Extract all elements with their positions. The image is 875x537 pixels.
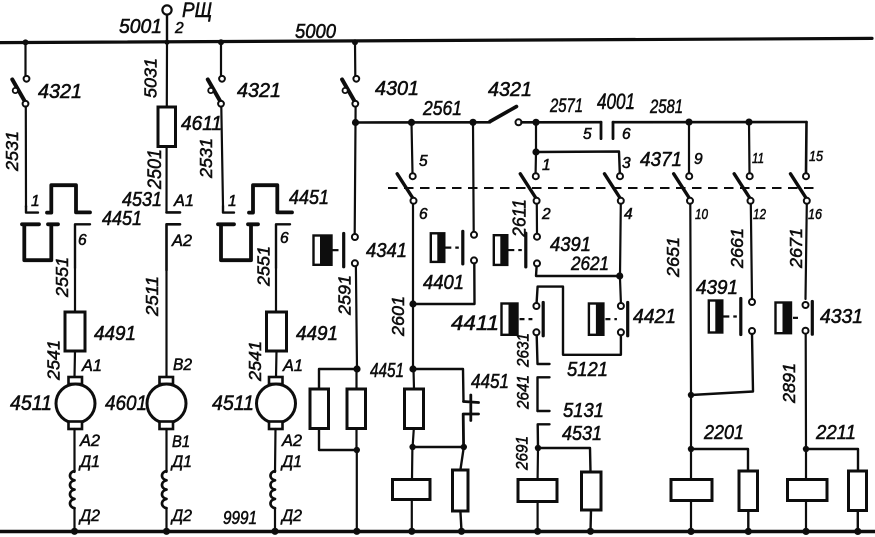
wire 2571 down to link 1-3: [535, 122, 537, 152]
switch contact 1-2: [520, 173, 539, 204]
svg-text:2561: 2561: [422, 98, 462, 120]
wire junction to relay coil 2211: [805, 449, 807, 479]
wire button 4391 return: [691, 334, 753, 395]
svg-text:Д1: Д1: [280, 453, 302, 471]
pushbutton 4391 (second): [709, 299, 755, 335]
node junction relay group 2201: [688, 446, 694, 452]
svg-text:2621: 2621: [570, 254, 609, 275]
wire 2541 to motor A1: [73, 351, 76, 377]
svg-text:4421: 4421: [633, 306, 676, 328]
resistor 4611: [158, 107, 176, 147]
svg-text:5131: 5131: [563, 400, 604, 422]
wire top supply bus 5000: [0, 38, 872, 42]
svg-text:2531: 2531: [2, 131, 22, 172]
wire 2511: [165, 270, 167, 377]
wire link to contact 1: [534, 152, 537, 173]
svg-text:4601: 4601: [105, 392, 147, 415]
svg-text:В2: В2: [173, 356, 192, 374]
pushbutton 4341: [314, 234, 358, 267]
svg-text:1: 1: [542, 157, 551, 174]
svg-text:Д2: Д2: [170, 507, 192, 525]
wire 2621: [536, 267, 620, 277]
svg-text:2211: 2211: [815, 422, 856, 444]
svg-text:2571: 2571: [549, 96, 583, 117]
wire 2581 to contact 9: [688, 122, 690, 173]
svg-text:Д1: Д1: [78, 453, 100, 471]
connector 4531 contact A1 (pin foot): [167, 211, 181, 214]
node junction link 1-3: [532, 148, 539, 155]
svg-text:3: 3: [622, 155, 631, 172]
wire 4321 to node 2571: [522, 121, 537, 124]
svg-text:2891: 2891: [779, 363, 799, 404]
wire junction left to resistor (brake group 1): [319, 369, 357, 389]
relay coil (brake group 2): [393, 480, 431, 500]
svg-text:5: 5: [583, 126, 592, 143]
relay coil 2211: [788, 480, 828, 501]
wire bus to switch 4321-2: [220, 42, 222, 75]
svg-text:Д2: Д2: [280, 507, 302, 525]
switch contact 9-10: [674, 173, 693, 204]
wire resistor 2201 to bus: [747, 511, 749, 532]
svg-text:15: 15: [809, 148, 824, 165]
svg-text:A1: A1: [173, 192, 194, 210]
node junction relay group 2211: [803, 446, 809, 452]
svg-text:4401: 4401: [423, 272, 464, 294]
svg-text:2631: 2631: [514, 333, 533, 368]
resistor 4491 (branch 1): [65, 312, 85, 351]
switch contact 3-4: [605, 173, 624, 204]
svg-text:2: 2: [174, 20, 184, 37]
svg-text:4511: 4511: [212, 392, 254, 415]
wire group 1 to bottom bus: [356, 450, 358, 531]
wire relay junction to tap junction: [413, 446, 464, 448]
resistor brake group 1 left: [310, 389, 329, 429]
svg-text:4491: 4491: [94, 323, 136, 345]
switch 4321 (line contact): [490, 107, 522, 126]
wire motor A2 to Д1 (branch 3): [274, 429, 277, 472]
wire bottom return bus: [0, 530, 875, 533]
svg-text:2671: 2671: [786, 228, 806, 269]
wire resistor left bottom: [319, 429, 356, 450]
wire 2891: [805, 334, 807, 449]
connector 4451 contact 6 (pin foot): [75, 224, 90, 268]
svg-text:2601: 2601: [388, 296, 408, 337]
connector 4451-2 contact 1 (pin foot): [223, 206, 234, 213]
wire link contacts 1-3: [536, 152, 620, 173]
switch contact 15-16: [791, 173, 810, 204]
svg-text:9991: 9991: [223, 508, 257, 528]
svg-text:4371: 4371: [640, 149, 682, 171]
wire tap junction to resistor: [460, 447, 463, 470]
wire switch 4301 to line 2561: [354, 107, 356, 123]
wire 2561 to contact 5: [412, 122, 413, 173]
relay coil 2201: [671, 480, 712, 501]
svg-text:2591: 2591: [335, 275, 355, 316]
svg-text:1: 1: [31, 193, 40, 210]
svg-text:4331: 4331: [820, 306, 863, 328]
svg-text:6: 6: [78, 232, 87, 249]
connector 4451 plug bridge (U): [22, 224, 58, 260]
svg-text:4531: 4531: [122, 189, 162, 211]
svg-text:A2: A2: [171, 232, 192, 250]
svg-text:1: 1: [228, 193, 237, 210]
wire 2671: [806, 204, 807, 299]
resistor discharge (2691 group): [582, 472, 602, 510]
node junction 2651 / 4391 return: [688, 392, 694, 398]
connector 5131 upper contact (foot): [538, 410, 550, 412]
wire motor A2 to field Д1: [73, 429, 75, 472]
svg-text:5001: 5001: [119, 16, 162, 38]
resistor brake group 1 right: [347, 389, 366, 429]
wire 2551 (branch 3): [275, 268, 277, 312]
svg-text:6: 6: [419, 206, 428, 223]
wire resistor 2211 to bus: [857, 511, 859, 532]
wire discharge resistor to bus: [460, 511, 461, 531]
wire 2531 (branch 1): [25, 107, 27, 208]
svg-text:A2: A2: [79, 432, 100, 450]
wire Д2 to bottom bus (branch 2): [165, 508, 167, 531]
connector 4451 tap upper contact: [464, 395, 479, 409]
connector 4451 socket bridge (inverted U): [47, 185, 90, 212]
node bottom bus junction (2201 coil): [687, 528, 694, 535]
svg-text:10: 10: [695, 206, 709, 223]
svg-text:4341: 4341: [366, 240, 407, 262]
svg-text:4301: 4301: [375, 78, 419, 100]
connector 4451-2 contact 6 (pin foot): [276, 224, 290, 268]
connector 4451-2 plug bridge (U): [218, 224, 258, 260]
node bottom bus junction (2691 coil): [534, 528, 541, 535]
node bottom bus junction discharge resistor: [458, 528, 465, 535]
resistor 4491 (branch 3): [267, 312, 287, 351]
svg-text:2641: 2641: [514, 375, 533, 410]
dashed control-panel boundary line: [388, 187, 818, 189]
wire 2591: [356, 266, 357, 369]
wire 2661: [751, 204, 752, 299]
wire relay coil 2201 to bus: [690, 501, 692, 532]
field winding Д1-Д2 (motor 1): [70, 471, 75, 508]
svg-text:4391: 4391: [550, 234, 591, 256]
svg-text:4451: 4451: [289, 187, 329, 209]
node bottom bus junction branch 2: [163, 528, 170, 535]
resistor group 2201: [739, 471, 758, 511]
wire Д2 to bottom bus (branch 3): [274, 508, 276, 531]
pushbutton 4401: [431, 231, 477, 264]
svg-text:4491: 4491: [296, 323, 338, 345]
svg-text:2511: 2511: [142, 276, 162, 317]
svg-text:4511: 4511: [10, 392, 52, 415]
wire relay coil 2211 to bus: [805, 501, 807, 532]
wire 5031: [166, 42, 168, 107]
wire 2551 (branch 1): [74, 268, 76, 312]
svg-text:5000: 5000: [295, 21, 336, 43]
node bottom bus junction (2201 resistor): [745, 528, 752, 535]
node bottom bus junction branch 1: [71, 528, 78, 535]
node junction 2691: [535, 445, 541, 451]
node bus junction branch 1: [23, 39, 29, 45]
node junction 2621 / contact 4: [616, 272, 623, 279]
switch 4321 (branch 1): [12, 76, 82, 107]
wire junction to relay coil: [411, 447, 414, 479]
svg-text:A1: A1: [81, 357, 102, 375]
svg-text:2531: 2531: [196, 138, 216, 179]
field winding Д1-Д2 (motor 2): [162, 471, 167, 508]
wire 2601 upper: [412, 204, 414, 304]
wire 2531 (branch 3): [221, 107, 223, 207]
node junction 2571: [532, 119, 539, 126]
wire junction to button 4341: [354, 123, 357, 234]
wire junction to button 4421: [620, 276, 621, 303]
svg-text:2581: 2581: [649, 97, 683, 118]
svg-text:2201: 2201: [703, 422, 744, 444]
node bottom bus junction branch 3: [271, 528, 278, 535]
node junction 2561 / button 4341 column: [408, 119, 415, 126]
wire button 4421 to button 4411 (loop): [537, 287, 621, 355]
svg-text:A1: A1: [282, 357, 303, 375]
wire button 4401 return: [413, 263, 475, 304]
svg-text:A2: A2: [281, 432, 302, 450]
svg-text:2541: 2541: [245, 341, 265, 382]
svg-text:6: 6: [280, 230, 289, 247]
node junction relay group 2: [409, 444, 415, 450]
wire relay coil to bottom bus: [411, 500, 413, 532]
svg-text:2691: 2691: [513, 436, 532, 471]
svg-text:4001: 4001: [597, 89, 635, 114]
wire line 2571: [536, 121, 601, 124]
pushbutton 4421: [589, 303, 628, 336]
node bottom bus junction relay 2: [408, 528, 415, 535]
relay coil (2691 group): [518, 480, 557, 502]
svg-text:4451: 4451: [370, 360, 404, 382]
svg-text:4451: 4451: [471, 371, 509, 393]
wire line 2581: [613, 121, 807, 124]
connector 5121 lower contact: [538, 377, 550, 411]
switch 4321 (branch 3): [208, 76, 281, 107]
wire discharge resistor to bus (2691): [589, 510, 592, 531]
wire junction to relay coil (2691): [536, 448, 539, 479]
svg-text:2651: 2651: [663, 237, 683, 278]
svg-text:4391: 4391: [696, 277, 738, 299]
wire line 2561: [356, 121, 491, 124]
svg-text:Д1: Д1: [170, 453, 192, 471]
wire 2611: [536, 204, 538, 234]
wire 2581 corner down to contact 15: [805, 122, 808, 173]
node junction 2561 left: [352, 119, 359, 126]
node bottom bus junction group 1: [353, 528, 360, 535]
connector 4001 contact 6 (hook): [612, 122, 615, 138]
motor 4511 (branch 1): [56, 377, 95, 429]
svg-text:5031: 5031: [141, 58, 161, 98]
switch contact 11-12: [734, 173, 753, 204]
wire resistor right bottom: [355, 429, 357, 450]
wire junction to resistor (group 2): [412, 369, 415, 389]
wire junction to resistor 2211: [806, 449, 858, 471]
svg-text:5121: 5121: [567, 359, 608, 381]
svg-text:4321: 4321: [38, 81, 82, 103]
wire 2651 to relay junction: [690, 395, 692, 449]
wire 2601 lower: [412, 304, 414, 369]
node junction 2581 / contact 11: [745, 119, 752, 126]
svg-text:9: 9: [694, 151, 703, 168]
wire motor B1 to Д1: [165, 429, 167, 472]
switch contact 5-6: [397, 173, 416, 204]
connector 4001 contact 5 (hook): [600, 122, 603, 138]
svg-text:4611: 4611: [181, 113, 222, 135]
node bus junction switch 4301: [352, 39, 358, 45]
wire bus to switch 4321-1: [24, 42, 26, 75]
svg-text:В1: В1: [172, 433, 190, 451]
svg-text:РЩ: РЩ: [182, 0, 212, 22]
node bottom bus junction (2211 resistor): [854, 528, 861, 535]
svg-text:2: 2: [541, 206, 551, 223]
svg-text:4411: 4411: [451, 312, 499, 335]
node junction 2591 / resistor group: [353, 365, 360, 372]
svg-text:4531: 4531: [562, 423, 602, 445]
wire relay coil to bus (2691): [536, 502, 538, 532]
node bottom bus junction (2211 coil): [802, 528, 809, 535]
wire Д2 to bottom bus (branch 1): [73, 508, 75, 531]
node bottom bus junction (2691 resistor): [587, 528, 594, 535]
wire contact 4 down: [619, 204, 622, 276]
node junction 2561 / button 4401 column: [469, 119, 476, 126]
wire 2501: [165, 147, 167, 212]
node bus junction branch 3: [218, 39, 224, 45]
resistor group 2211: [849, 471, 867, 511]
pushbutton 4391 (first): [494, 233, 540, 267]
svg-text:4: 4: [624, 206, 633, 223]
wire 2631: [537, 336, 550, 364]
node junction 2601 / 4451 tap: [409, 365, 416, 372]
svg-text:Д2: Д2: [78, 507, 100, 525]
node junction 2581 / contact 9: [685, 119, 692, 126]
wire 2541 to motor A1 (branch 3): [275, 351, 278, 377]
wire junction to resistor 2201: [691, 449, 748, 471]
wire 4451 tap to connector: [413, 369, 464, 402]
connector 4451 contact 1 (pin foot): [26, 206, 38, 213]
wire bus to switch 4301: [354, 42, 356, 75]
field winding Д1-Д2 (motor 3): [270, 471, 275, 508]
svg-text:2661: 2661: [727, 228, 747, 269]
svg-text:2541: 2541: [44, 340, 64, 381]
connector 4451 tap lower contact: [463, 410, 478, 448]
resistor brake group 2: [405, 389, 424, 429]
svg-text:2551: 2551: [52, 257, 72, 298]
svg-text:2551: 2551: [254, 246, 274, 287]
resistor discharge (group 2): [453, 470, 469, 511]
pushbutton 4411: [502, 303, 544, 336]
connector 5131 lower contact: [538, 424, 550, 448]
connector 4531 contact A2 (pin foot): [167, 224, 181, 270]
svg-text:4451: 4451: [102, 208, 142, 230]
wire junction down to resistor right: [355, 369, 357, 389]
wire resistor to relay junction: [413, 429, 414, 447]
svg-text:4321: 4321: [488, 79, 532, 101]
svg-text:5: 5: [419, 153, 428, 170]
terminal РЩ (distribution board) pin 2: [162, 5, 171, 42]
svg-text:6: 6: [622, 126, 631, 143]
pushbutton 4331: [776, 302, 813, 335]
motor 4601: [147, 377, 186, 429]
wire 2651: [689, 204, 692, 395]
wire 2561 to button 4401: [472, 122, 475, 231]
node junction connector tap bottom: [461, 444, 467, 450]
connector 4451-2 socket bridge (inverted U): [249, 185, 292, 212]
node junction resistors bottom: [354, 447, 360, 453]
node junction 2601 / 4401 return: [409, 300, 416, 307]
svg-text:12: 12: [753, 206, 767, 223]
motor 4511 (branch 3): [257, 377, 296, 429]
svg-text:16: 16: [808, 206, 823, 223]
wire 2581 to contact 11: [748, 122, 751, 173]
node bus junction branch 2: [164, 40, 169, 45]
svg-text:11: 11: [752, 150, 764, 167]
wire junction to discharge resistor (2691): [538, 448, 591, 472]
wire junction to relay coil 2201: [690, 449, 692, 479]
svg-text:4321: 4321: [237, 80, 281, 102]
svg-text:2501: 2501: [145, 149, 166, 190]
switch 4301: [342, 76, 419, 107]
